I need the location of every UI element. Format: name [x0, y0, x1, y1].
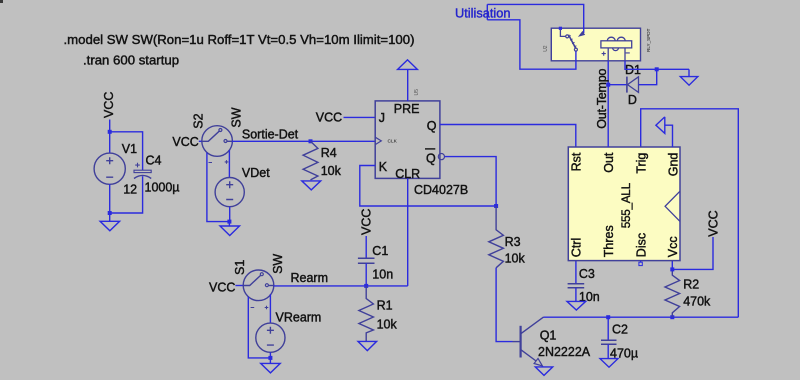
Gnd flag arrow: [656, 117, 673, 147]
svg-text:S1: S1: [233, 260, 247, 275]
wire Rearm: [274, 271, 408, 286]
svg-text:Trig: Trig: [634, 153, 648, 174]
wire coil minus to ground: [625, 61, 689, 70]
svg-text:C1: C1: [372, 244, 388, 258]
resistor R3: [489, 206, 526, 268]
node junction diode tap: [606, 83, 610, 87]
svg-text:VDet: VDet: [242, 166, 270, 180]
svg-text:470k: 470k: [683, 294, 711, 308]
VCC label J pin: [316, 110, 375, 124]
svg-text:K: K: [379, 160, 388, 174]
node junction Thres-C2: [606, 315, 610, 319]
svg-text:R2: R2: [683, 278, 699, 292]
wire C4 bottom: [110, 176, 143, 213]
VCC flag above C1: [360, 209, 374, 258]
svg-text:J: J: [379, 111, 385, 125]
svg-text:U2: U2: [543, 45, 549, 52]
svg-text:Vcc: Vcc: [666, 236, 680, 257]
resistor R1: [359, 286, 398, 341]
wire VRearm bottom: [269, 352, 271, 358]
wire K: [360, 166, 496, 207]
svg-text:Q: Q: [427, 119, 437, 133]
relay U2 box: [543, 28, 651, 61]
ground under Q1 emitter: [535, 367, 552, 376]
node junction VRearm ground: [268, 356, 272, 360]
svg-text:.tran 600 startup: .tran 600 startup: [83, 53, 179, 68]
ground under V1: [100, 213, 120, 231]
ground under VRearm: [261, 358, 281, 373]
svg-text:CD4027B: CD4027B: [414, 183, 468, 197]
capacitor C4: [134, 154, 180, 195]
svg-text:10k: 10k: [321, 164, 342, 178]
svg-text:VRearm: VRearm: [276, 311, 322, 325]
svg-text:R1: R1: [377, 298, 393, 312]
svg-text:Ctrl: Ctrl: [570, 238, 584, 257]
ground under R1: [358, 341, 377, 350]
relay common pin square: [559, 27, 562, 30]
node junction VDet ground: [227, 220, 231, 224]
wire to D1: [608, 84, 627, 86]
diode D1: [625, 63, 641, 107]
capacitor C1: [358, 244, 393, 282]
wire S2 control left: [207, 153, 230, 222]
svg-text:Rearm: Rearm: [291, 271, 329, 285]
svg-text:S2: S2: [192, 113, 206, 128]
wire V1 bottom: [109, 184, 111, 213]
svg-text:.model SW SW(Ron=1u Roff=1T Vt: .model SW SW(Ron=1u Roff=1T Vt=0.5 Vh=10…: [64, 32, 415, 47]
svg-text:PRE: PRE: [394, 102, 420, 116]
wire to C4 top: [110, 132, 143, 170]
svg-text:Utilisation: Utilisation: [455, 6, 510, 21]
wire D1 anode up: [639, 69, 657, 84]
switch S1: [209, 254, 285, 310]
wire VDet bottom: [229, 207, 231, 222]
wire right rail up: [641, 109, 739, 317]
wire Q to Rst: [440, 125, 576, 148]
wire Sortie-Det: [232, 127, 375, 141]
PRE flag wire: [407, 70, 409, 101]
resistor R2: [665, 269, 711, 317]
wire relay pole to Utilisation: [487, 20, 576, 69]
svg-text:12: 12: [123, 183, 137, 197]
wire Utilisation top: [487, 4, 583, 33]
svg-text:R4: R4: [321, 146, 337, 160]
svg-text:CLK: CLK: [388, 139, 398, 145]
svg-text:10k: 10k: [505, 252, 526, 266]
node junction R4: [309, 139, 313, 143]
voltage source VDet: [215, 166, 270, 207]
Disc pin open square: [639, 261, 642, 266]
svg-text:2N2222A: 2N2222A: [538, 345, 591, 359]
svg-text:VCC: VCC: [209, 280, 235, 294]
wire S1 control left: [248, 297, 270, 358]
svg-text:VCC: VCC: [360, 209, 374, 235]
svg-text:Out: Out: [602, 152, 616, 173]
flip-flop U5 CD4027B: [375, 89, 468, 197]
svg-text:C4: C4: [146, 154, 162, 168]
svg-text:SW: SW: [230, 107, 244, 127]
VCC flag left: [102, 92, 116, 132]
svg-text:U5: U5: [414, 89, 420, 96]
wire R3 to Q1 base: [496, 268, 512, 342]
svg-text:Gnd: Gnd: [666, 153, 680, 177]
wire CLR down: [407, 178, 409, 286]
spice directive .model: [64, 32, 415, 47]
resistor R4: [303, 141, 342, 180]
node junction R2 bottom: [670, 315, 674, 319]
voltage source VRearm: [256, 311, 322, 353]
arrowhead to relay contact: [579, 32, 585, 37]
capacitor C3: [568, 261, 600, 305]
svg-text:C2: C2: [612, 323, 628, 337]
spice directive .tran: [83, 53, 179, 68]
svg-text:Q: Q: [426, 152, 436, 166]
switch S2: [172, 107, 243, 163]
wire Vcc pin stub: [671, 261, 673, 270]
wire S2 control right: [228, 150, 230, 178]
node junction Qbar-K-R3: [494, 204, 498, 208]
transistor Q1: [513, 317, 591, 366]
wire S1 control right: [269, 294, 271, 323]
svg-text:SW: SW: [271, 254, 285, 274]
svg-text:1000µ: 1000µ: [145, 180, 180, 194]
wire Out-Tempo: [595, 61, 609, 147]
ground top right: [680, 69, 698, 85]
relay coil: [601, 37, 632, 61]
ground under R4: [302, 181, 321, 190]
wire Qbar: [445, 157, 497, 206]
node junction Vcc pin: [670, 267, 674, 271]
svg-text:Out-Tempo: Out-Tempo: [595, 69, 609, 129]
capacitor C2: [601, 317, 638, 360]
net label Utilisation: [455, 6, 510, 21]
svg-text:C3: C3: [579, 267, 595, 281]
wire Utilisation stub: [486, 4, 488, 19]
svg-text:Sortie-Det: Sortie-Det: [242, 127, 299, 141]
ground under VDet: [220, 222, 240, 236]
svg-text:RLY_SPDT: RLY_SPDT: [646, 28, 651, 52]
svg-text:D: D: [628, 93, 637, 107]
wire collector rail: [544, 316, 739, 318]
svg-text:VCC: VCC: [316, 110, 342, 124]
svg-text:Disc: Disc: [634, 233, 648, 257]
svg-text:VCC: VCC: [172, 135, 198, 149]
svg-text:Thres: Thres: [602, 225, 616, 257]
voltage source V1: [94, 142, 137, 197]
svg-text:Q1: Q1: [540, 328, 557, 342]
wire C1 bottom: [365, 263, 367, 286]
relay switch: [560, 30, 577, 51]
svg-text:555_ALL: 555_ALL: [619, 182, 633, 228]
wire V1 top: [109, 132, 111, 153]
ground under C2: [600, 359, 618, 368]
svg-text:R3: R3: [505, 235, 521, 249]
svg-text:V1: V1: [122, 142, 137, 156]
svg-text:10k: 10k: [377, 317, 398, 331]
node junction V1 bottom: [108, 211, 112, 215]
VCC flag right: [672, 210, 720, 269]
node junction V1 top: [108, 130, 112, 134]
node junction Rearm-C1-R1: [364, 284, 368, 288]
svg-text:10n: 10n: [372, 267, 393, 281]
svg-text:VCC: VCC: [102, 92, 116, 118]
svg-text:VCC: VCC: [706, 210, 720, 236]
ground under C3: [567, 301, 586, 310]
flag triangle above PRE: [398, 60, 418, 70]
555 timer U1: [568, 147, 680, 261]
node junction coil minus: [655, 67, 659, 71]
svg-text:Rst: Rst: [570, 152, 584, 171]
